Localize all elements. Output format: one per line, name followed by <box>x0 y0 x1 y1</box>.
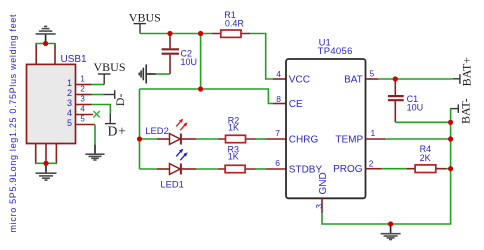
pin stub USB1.1 <box>76 84 92 86</box>
junction: VBUS/CE feed <box>198 31 203 36</box>
svg-text:VCC: VCC <box>289 75 310 86</box>
svg-text:D-: D- <box>113 94 127 107</box>
svg-text:1: 1 <box>67 78 72 88</box>
wire: R3 to STDBY <box>256 168 267 170</box>
wire: PROG to R4 <box>382 168 407 170</box>
svg-text:3: 3 <box>67 98 72 108</box>
pin stub U1.2 PROG <box>366 168 382 170</box>
pin stub U1.5 BAT <box>366 78 379 80</box>
pin stub U1.7 CHRG <box>266 138 286 140</box>
svg-text:2: 2 <box>369 158 374 168</box>
resistor R1 <box>221 30 241 37</box>
net port D- <box>103 90 114 99</box>
no-connect X on pin 4 <box>93 111 99 117</box>
ground (GND rail) <box>381 224 401 240</box>
svg-text:USB1: USB1 <box>61 54 88 65</box>
svg-text:10U: 10U <box>181 57 198 67</box>
pin stub U1.6 STDBY <box>266 168 286 170</box>
svg-text:3: 3 <box>314 204 324 209</box>
svg-text:VBUS: VBUS <box>129 10 161 24</box>
junction: CE feed / LED column <box>198 86 203 91</box>
wire: LED2 to R2 <box>196 138 217 140</box>
net port BAT+ <box>453 74 460 84</box>
USB1 pin numbers (inside body) <box>67 78 72 128</box>
wire: R4 to BAT- column <box>446 168 451 170</box>
capacitor C1 leads <box>394 79 396 122</box>
wire: BAT- column up to port <box>450 109 452 123</box>
svg-text:1K: 1K <box>228 152 239 162</box>
junction: top shield <box>43 41 48 46</box>
ground (below USB1) <box>36 163 57 180</box>
svg-text:2: 2 <box>67 88 72 98</box>
pin stub USB1.5 <box>76 124 96 126</box>
net port VBUS (at USB pin1) <box>98 74 111 85</box>
LED2 light arrows (red) <box>176 119 188 131</box>
op-amp U1 TP4056 body <box>286 37 366 198</box>
ground (C2, rotated left) <box>139 65 156 84</box>
pin stub U1.8 CE <box>273 103 286 105</box>
svg-text:VBUS: VBUS <box>93 60 125 74</box>
LED1 light arrows (blue) <box>176 149 188 161</box>
svg-text:BAT-: BAT- <box>459 98 473 124</box>
junction: TEMP/BAT- <box>448 136 453 141</box>
resistor R3 leads <box>218 168 256 170</box>
junction: GND rail / ground <box>388 221 393 226</box>
ground (flipped, above USB1) <box>36 26 56 43</box>
wire: LED column <box>139 89 141 169</box>
wire: C2 to ground <box>156 73 170 75</box>
note: vertical blue note text left edge <box>8 14 18 233</box>
svg-text:0.4R: 0.4R <box>225 19 245 29</box>
wire: LED2 row in <box>140 138 157 140</box>
wire: BAT to BAT+ <box>378 78 452 80</box>
pin stub U1.3 GND <box>321 198 323 213</box>
svg-text:10U: 10U <box>407 103 424 113</box>
svg-text:1: 1 <box>80 75 85 84</box>
svg-text:8: 8 <box>276 94 281 104</box>
LED2 cathode lead <box>181 138 197 140</box>
svg-text:CE: CE <box>289 99 303 110</box>
svg-text:5: 5 <box>67 118 72 128</box>
junction: LED2 tap <box>137 136 142 141</box>
wire: pin5 down to ground <box>94 125 96 145</box>
svg-text:4: 4 <box>67 108 72 118</box>
svg-text:TP4056: TP4056 <box>318 46 353 57</box>
pin stub USB1.3 <box>76 104 92 106</box>
wire: VBUS rail top <box>140 33 212 35</box>
svg-text:CHRG: CHRG <box>289 135 319 146</box>
resistor R1 leads <box>212 33 250 35</box>
wire: top shield tie <box>35 43 55 45</box>
capacitor C1 plates <box>388 96 404 100</box>
capacitor C2 leads <box>169 34 171 75</box>
svg-text:2: 2 <box>80 85 85 94</box>
capacitor C2 plates <box>162 49 179 53</box>
wire: R2 to CHRG <box>256 138 267 140</box>
LED1 cathode lead <box>181 168 197 170</box>
wire: C1 to BAT- column <box>395 121 450 123</box>
junction: bottom shield <box>43 161 48 166</box>
wire: LED1 row in <box>140 168 157 170</box>
resistor R2 leads <box>218 138 256 140</box>
pin stub U1.1 TEMP <box>366 138 386 140</box>
svg-text:GND: GND <box>318 172 329 194</box>
USB1 shield pin stubs bottom <box>36 144 57 164</box>
svg-text:7: 7 <box>275 128 280 138</box>
wire: GND rail bottom <box>322 122 451 224</box>
connector USB1 body <box>27 54 88 144</box>
wire: bottom shield tie <box>35 162 57 164</box>
svg-text:PROG: PROG <box>333 164 363 175</box>
USB1 wire pin numbers <box>80 75 85 124</box>
junction: R4/BAT- <box>448 166 453 171</box>
junction: BAT/C1 <box>393 76 398 81</box>
wire: pin1 to VBUS <box>92 84 105 86</box>
svg-text:LED2: LED2 <box>145 125 168 136</box>
USB1 shield pin stubs top <box>36 44 55 65</box>
svg-text:D+: D+ <box>108 123 127 138</box>
svg-text:4: 4 <box>276 69 281 79</box>
LED1 <box>170 164 181 175</box>
LED1 anode lead <box>157 168 170 170</box>
junction: VBUS/C2 <box>167 31 172 36</box>
wire: pin2 to D- <box>92 94 104 96</box>
svg-text:1K: 1K <box>228 122 239 132</box>
junction: C1/BAT- <box>448 120 453 125</box>
wire: TEMP to BAT- column <box>386 138 451 140</box>
net port BAT- <box>450 104 458 113</box>
svg-text:1: 1 <box>371 128 376 138</box>
svg-text:3: 3 <box>80 95 85 104</box>
svg-text:5: 5 <box>370 68 375 78</box>
net port VBUS (top) <box>134 24 146 34</box>
svg-text:TEMP: TEMP <box>335 135 363 146</box>
pin stub USB1.2 <box>76 94 92 96</box>
svg-text:4: 4 <box>80 105 85 114</box>
svg-text:2K: 2K <box>420 153 431 163</box>
svg-text:BAT: BAT <box>344 75 363 86</box>
resistor R4 <box>415 165 436 173</box>
wire: R1 to VCC <box>250 34 273 80</box>
svg-text:6: 6 <box>275 158 280 168</box>
resistor R2 <box>226 135 246 142</box>
svg-text:5: 5 <box>80 115 85 124</box>
resistor R3 <box>225 165 245 172</box>
pin stub U1.4 VCC <box>273 78 286 80</box>
net port D+ <box>105 114 116 124</box>
wire: pin3 to D+ <box>92 105 111 114</box>
svg-text:BAT+: BAT+ <box>460 57 474 87</box>
svg-text:LED1: LED1 <box>160 179 183 190</box>
wire: LED1 to R3 <box>196 168 217 170</box>
resistor R4 leads <box>406 168 446 170</box>
pin stub USB1.4 <box>76 114 94 116</box>
svg-text:micro 5P5.9Long leg1.25 0.75Pl: micro 5P5.9Long leg1.25 0.75Plus welding… <box>8 14 18 233</box>
ground (USB pin5) <box>85 145 104 160</box>
LED2 <box>170 134 181 145</box>
LED2 anode lead <box>157 138 170 140</box>
wire: CE feed (VBUS junction down and across) <box>140 34 274 104</box>
